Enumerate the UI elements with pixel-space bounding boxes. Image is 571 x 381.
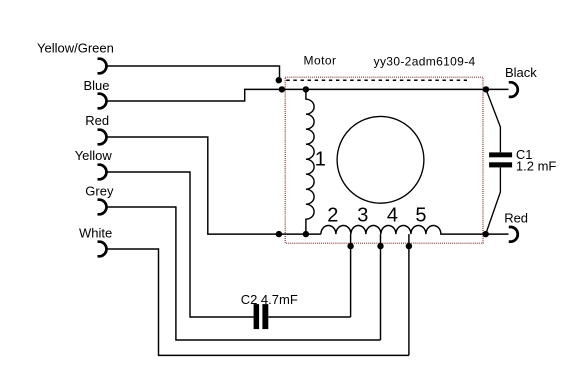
capacitor C1 xyxy=(489,152,512,157)
node D4 xyxy=(483,86,489,92)
wire C1 upper xyxy=(486,89,500,152)
svg-text:Grey: Grey xyxy=(85,184,114,199)
terminal Yellow xyxy=(98,165,107,180)
terminal Yellow/Green xyxy=(98,59,107,74)
svg-text:3: 3 xyxy=(357,205,368,227)
svg-text:Motor: Motor xyxy=(304,54,337,68)
terminal Blue xyxy=(98,94,107,109)
rotor circle xyxy=(337,116,424,203)
node D9 xyxy=(406,243,412,249)
winding 1 (main) xyxy=(306,89,314,234)
node D2 xyxy=(279,86,285,92)
svg-text:Yellow/Green: Yellow/Green xyxy=(37,41,114,56)
svg-text:5: 5 xyxy=(415,205,426,227)
wire Red to bottom bus xyxy=(108,137,321,234)
wire Blue to top bus xyxy=(108,89,509,101)
svg-text:yy30-2adm6109-4: yy30-2adm6109-4 xyxy=(374,55,476,69)
wire White to tap 4 xyxy=(108,249,409,355)
terminal Black xyxy=(509,82,518,97)
wire Grey to tap 3 xyxy=(108,207,381,340)
node D1 xyxy=(276,77,282,83)
capacitor C2 xyxy=(254,304,260,329)
tap wire 3 xyxy=(380,234,382,340)
terminal Grey xyxy=(98,200,107,215)
tap wire 4 xyxy=(408,234,410,355)
wire Yellow/Green to motor frame xyxy=(108,66,280,80)
wire C1 lower xyxy=(486,167,501,234)
svg-text:Yellow: Yellow xyxy=(75,148,113,163)
node D3 xyxy=(303,86,309,92)
terminal Red xyxy=(98,130,107,145)
svg-text:4: 4 xyxy=(387,205,398,227)
wire Yellow to C2 xyxy=(108,172,254,317)
wire C2 to tap 2 xyxy=(268,316,350,318)
node D7 xyxy=(347,243,353,249)
svg-text:Red: Red xyxy=(85,113,109,128)
node D6 xyxy=(303,231,309,237)
terminal White xyxy=(98,242,107,257)
motor boundary (red dotted box) xyxy=(285,77,483,243)
svg-text:Black: Black xyxy=(505,65,537,80)
svg-text:1: 1 xyxy=(315,148,326,170)
node D10 xyxy=(483,231,489,237)
node D5 xyxy=(276,231,282,237)
svg-text:C2 4.7mF: C2 4.7mF xyxy=(241,292,298,307)
svg-text:White: White xyxy=(79,226,112,241)
winding 2-5 (tapped) xyxy=(321,226,509,235)
svg-text:Red: Red xyxy=(504,211,528,226)
dashed earth line xyxy=(286,79,467,81)
node D8 xyxy=(377,243,383,249)
tap wire 2 xyxy=(350,234,352,317)
svg-text:2: 2 xyxy=(327,205,338,227)
svg-text:1.2 mF: 1.2 mF xyxy=(516,159,557,174)
svg-text:Blue: Blue xyxy=(84,78,110,93)
terminal Red right xyxy=(509,227,518,242)
